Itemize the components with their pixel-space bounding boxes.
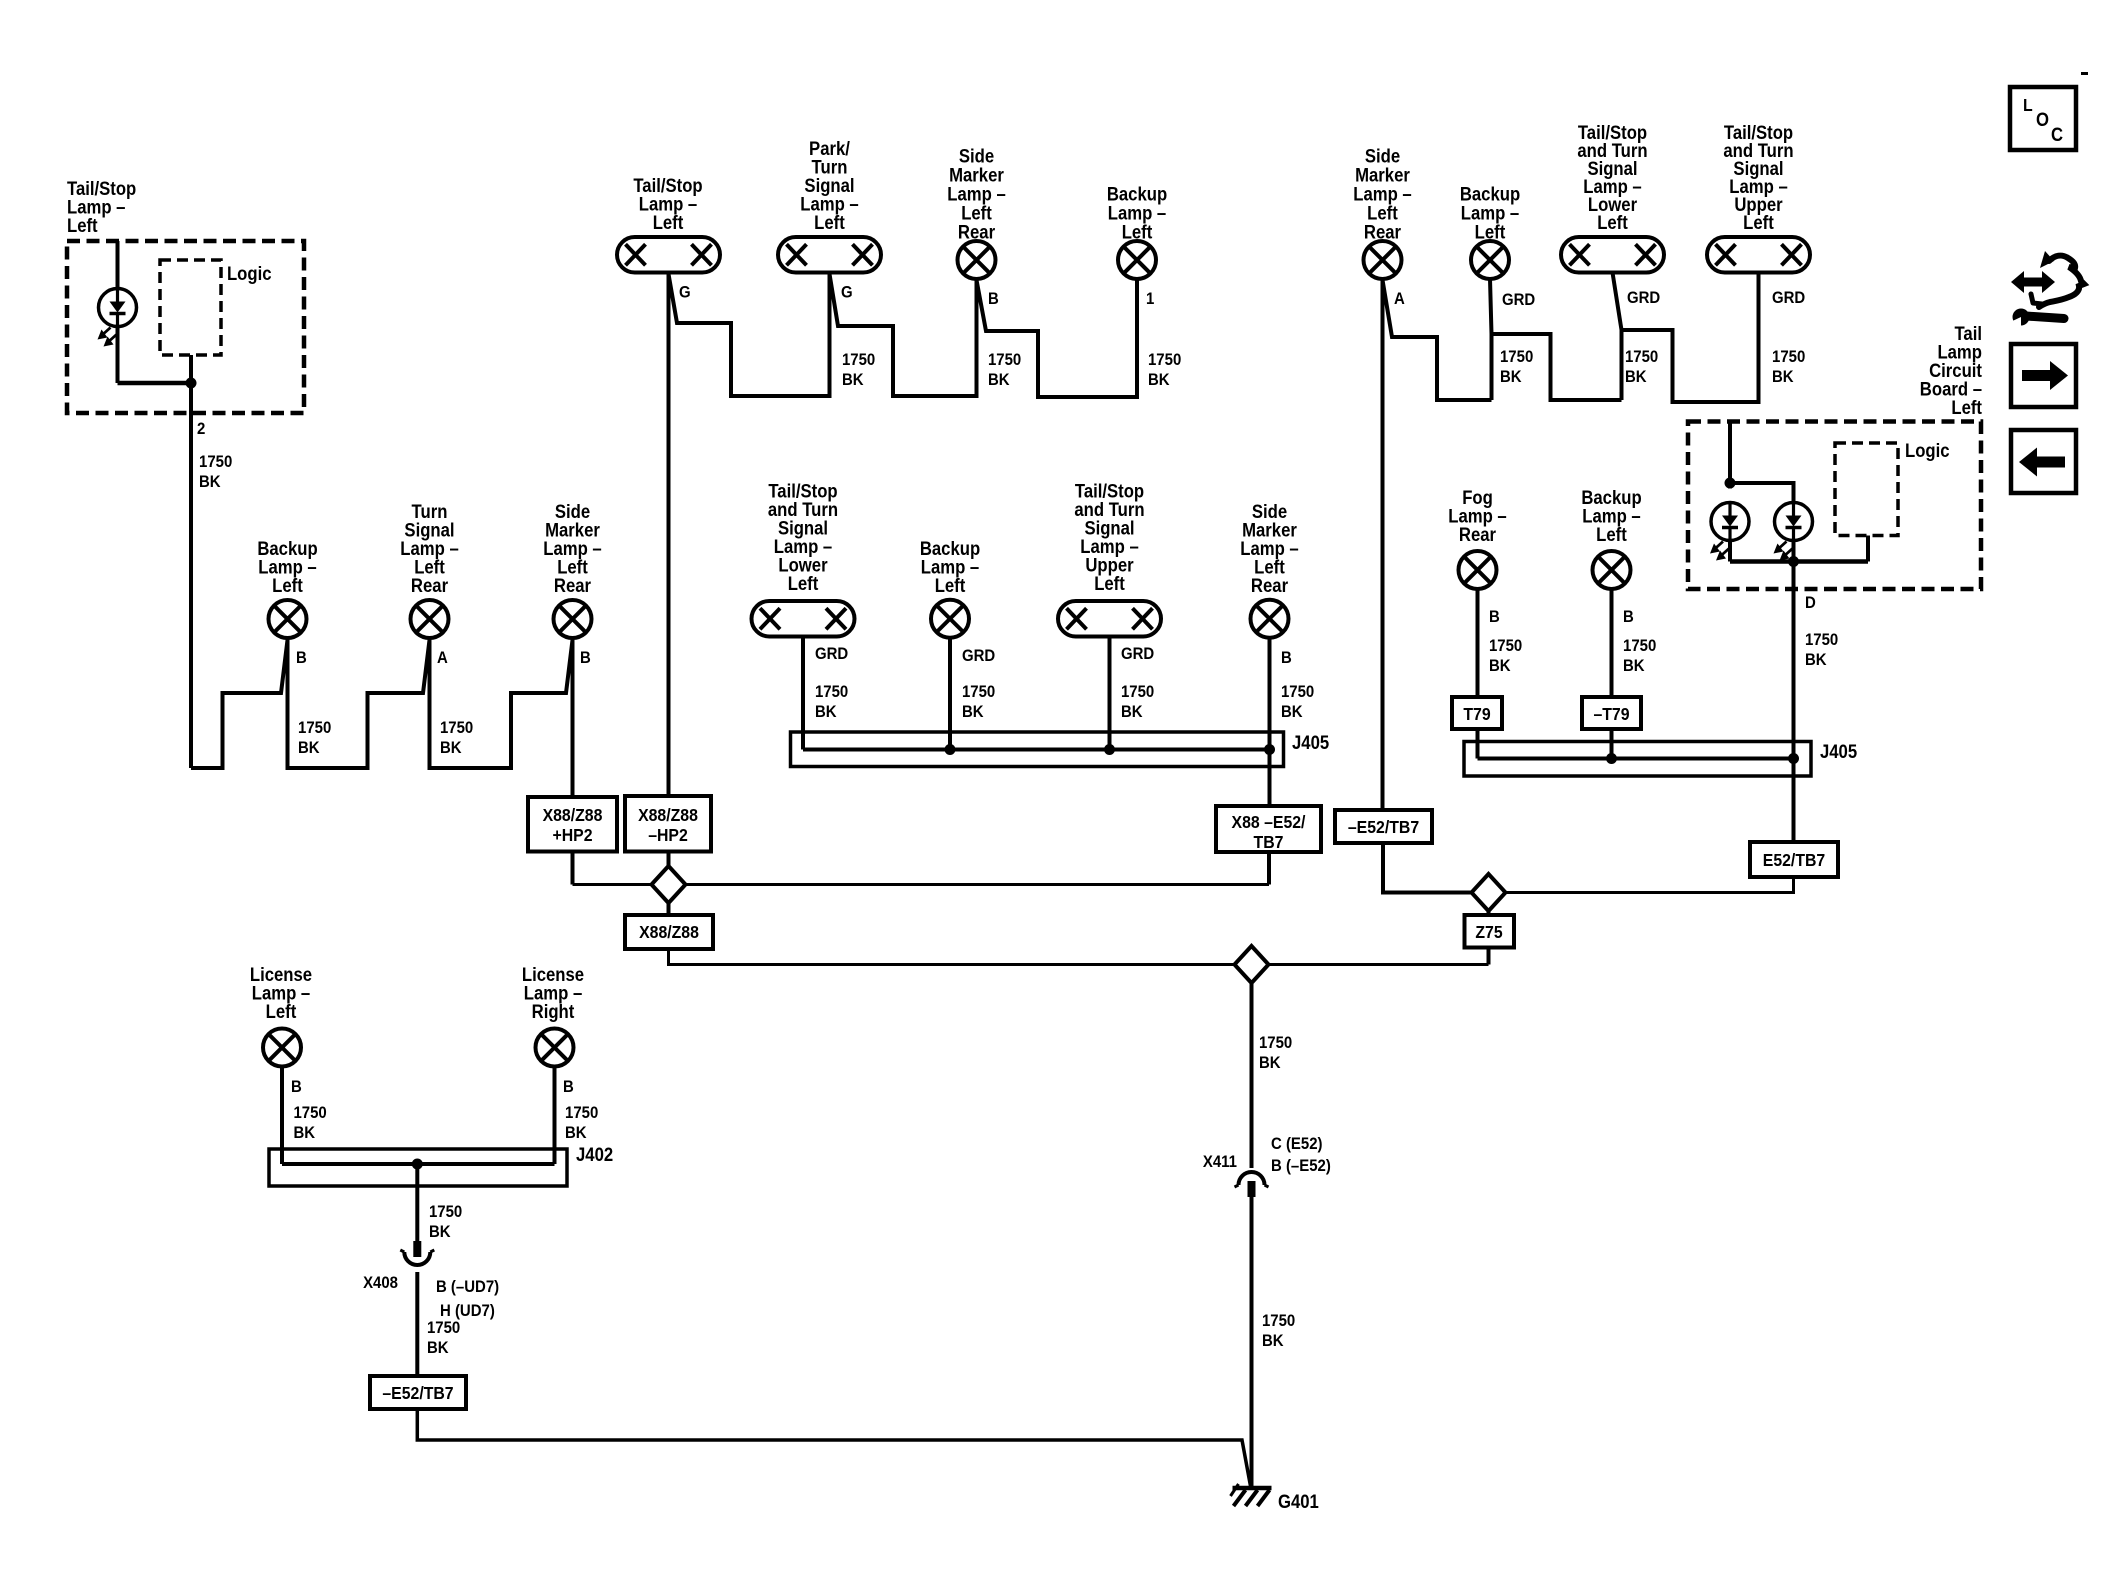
LED D1 (tail/stop lamp) [99,289,137,327]
wire: -T79 to J405 [1610,729,1614,759]
svg-text:X88/Z88: X88/Z88 [543,805,603,825]
svg-text:J405: J405 [1820,741,1857,762]
lamp: Tail/Stop and Turn Signal Lamp - Upper Left (stadium) [1058,601,1161,637]
svg-text:D: D [1805,594,1816,612]
svg-text:Logic: Logic [1905,440,1950,461]
dashed Logic box (inner) [160,260,221,355]
svg-text:BK: BK [1259,1054,1281,1072]
wire: -E52/TB7 down to splice [1383,843,1472,893]
svg-text:–E52/TB7: –E52/TB7 [382,1383,453,1403]
connector E52/TB7 [1750,842,1838,877]
svg-text:X88 –E52/: X88 –E52/ [1232,812,1306,832]
svg-text:X408: X408 [363,1274,398,1292]
svg-text:GRD: GRD [1627,289,1660,307]
svg-text:Rear: Rear [1459,524,1496,545]
icon: arrow right box [2011,344,2076,407]
wire: D pin down through J405 right [1792,562,1796,843]
dashed housing box (Tail/Stop Lamp - Left) [67,241,304,413]
svg-text:B: B [580,649,591,667]
svg-text:G: G [841,284,853,302]
wire: J405 internal bus [803,748,1269,752]
lamp: Side Marker Lamp - Left Rear (bulb) [958,241,996,279]
lamp: License Lamp - Right (bulb) [536,1029,574,1067]
svg-text:Right: Right [532,1001,575,1022]
svg-text:BK: BK [1625,368,1647,386]
svg-text:B: B [1281,649,1292,667]
svg-text:Left: Left [1597,212,1628,233]
svg-text:–E52/TB7: –E52/TB7 [1348,817,1419,837]
wire: chain Backup GRD to Lower Left GRD [1492,334,1622,400]
svg-text:1750: 1750 [1805,631,1838,649]
wire: chain Backup B to Turn Signal A [288,638,430,768]
svg-text:BK: BK [298,739,320,757]
wire: LED cathode to node, node to Logic box [116,327,120,384]
svg-text:BK: BK [1281,703,1303,721]
svg-text:BK: BK [1772,368,1794,386]
svg-text:1750: 1750 [1489,637,1522,655]
wire: board feed stub [1728,422,1732,489]
svg-text:Left: Left [814,212,845,233]
svg-text:1750: 1750 [1262,1312,1295,1330]
svg-text:G: G [679,284,691,302]
svg-text:1750: 1750 [429,1203,462,1221]
svg-text:GRD: GRD [1502,291,1535,309]
svg-text:1750: 1750 [1500,348,1533,366]
svg-text:BK: BK [199,473,221,491]
svg-text:BK: BK [815,703,837,721]
svg-text:BK: BK [1623,657,1645,675]
wire: J402 down to X408 [415,1164,419,1247]
svg-text:1750: 1750 [298,719,331,737]
svg-text:1750: 1750 [1281,683,1314,701]
connector X88/Z88 +HP2 [528,797,617,852]
connector T79 [1452,697,1502,729]
svg-text:Left: Left [1094,573,1125,594]
svg-text:BK: BK [1500,368,1522,386]
wire: -E52/TB7 to G401 [417,1409,1250,1486]
svg-text:1750: 1750 [1259,1034,1292,1052]
svg-text:B (–UD7): B (–UD7) [436,1278,499,1296]
lamp: Park/Turn Signal Lamp - Left (stadium) [778,237,881,272]
splice diamond (X88/Z88) [652,866,686,903]
LED D2 (circuit board) [1711,503,1749,541]
svg-text:L: L [2023,95,2033,115]
svg-text:BK: BK [429,1223,451,1241]
lamp: Side Marker Lamp - Left Rear row2 (bulb) [554,600,592,638]
svg-text:1750: 1750 [962,683,995,701]
svg-text:–T79: –T79 [1593,704,1629,724]
connector X88/Z88 -HP2 [625,796,711,852]
lamp: License Lamp - Left (bulb) [263,1029,301,1067]
svg-text:Rear: Rear [411,575,448,596]
svg-text:1750: 1750 [440,719,473,737]
svg-text:BK: BK [842,371,864,389]
connector -T79 [1582,697,1641,729]
svg-text:1750: 1750 [565,1104,598,1122]
icon: double arrow with wrench (service) [2011,271,2055,293]
wire: logic box to common [1866,536,1870,562]
lamp: Turn Signal Lamp - Left Rear (bulb) [411,600,449,638]
svg-text:B (–E52): B (–E52) [1271,1157,1331,1175]
wire: X411 to G401 [1250,1197,1254,1488]
svg-text:A: A [1394,290,1405,308]
svg-text:1750: 1750 [1625,348,1658,366]
svg-text:B: B [988,290,999,308]
svg-text:Rear: Rear [1251,575,1288,596]
svg-text:1750: 1750 [1148,351,1181,369]
svg-text:B: B [291,1078,302,1096]
wire: +HP2 to splice horizontal [571,852,575,885]
wire: Tail/Stop G long drop to X88/Z88 -HP2 [667,273,671,797]
svg-text:1750: 1750 [988,351,1021,369]
svg-text:BK: BK [427,1339,449,1357]
wire: ground chain Side Marker B to Backup 1 [977,279,1138,397]
svg-text:C: C [2051,124,2063,145]
dashed housing: Tail Lamp Circuit Board - Left [1688,422,1981,590]
junction node LED feed [1725,478,1736,489]
wire: chain A to Backup GRD [1383,280,1492,400]
wire: J402 internal bus [282,1162,555,1166]
svg-text:Logic: Logic [227,263,272,284]
wire: splice horizontal X88/Z88 net [573,883,1270,886]
svg-text:1750: 1750 [1121,683,1154,701]
svg-text:X88/Z88: X88/Z88 [639,922,699,942]
wire: GRD to J405 [948,638,952,750]
svg-text:1750: 1750 [427,1319,460,1337]
wire: License left B to J402 [280,1067,284,1165]
svg-text:BK: BK [1262,1332,1284,1350]
svg-text:B: B [563,1078,574,1096]
svg-text:C (E52): C (E52) [1271,1135,1323,1153]
svg-text:1750: 1750 [815,683,848,701]
splice diamond Z75 [1472,874,1506,911]
wire: License right B to J402 [553,1067,557,1165]
svg-text:2: 2 [197,420,205,438]
lamp: Tail/Stop and Turn Signal Lamp - Lower Left (stadium) [752,601,855,637]
junction dot [1788,556,1799,567]
svg-text:GRD: GRD [815,645,848,663]
svg-text:+HP2: +HP2 [552,825,592,845]
svg-text:BK: BK [440,739,462,757]
svg-text:E52/TB7: E52/TB7 [1763,850,1825,870]
lamp: Tail/Stop Lamp - Left (dual filament stadium) [617,237,720,272]
svg-text:O: O [2036,109,2049,130]
svg-text:H (UD7): H (UD7) [440,1302,495,1320]
lamp: Fog Lamp - Rear (bulb) [1459,551,1497,589]
connector Z75 [1465,915,1515,948]
wire: Backup B to -T79 [1610,589,1614,697]
wire: pin 2 long vertical down [189,383,193,768]
wire: -HP2 down to splice diamond [667,852,671,868]
splice pack J402 [269,1149,567,1186]
svg-text:B: B [1623,608,1634,626]
svg-text:BK: BK [1489,657,1511,675]
connector -E52/TB7 (bottom) [370,1376,466,1409]
svg-text:Left: Left [1951,397,1982,418]
wire: pin2 run steps to Backup Lamp B [191,640,288,768]
wire: ground chain Park/Turn G to Side Marker B [830,274,977,396]
LED D3 (circuit board) [1775,503,1813,541]
wire: X88/Z88 down and right to Z75 [669,949,1489,965]
wire: feed to LED2 [1730,483,1794,503]
svg-text:GRD: GRD [962,647,995,665]
svg-text:1750: 1750 [199,453,232,471]
svg-text:–HP2: –HP2 [648,825,688,845]
connector X411 (inline) [1239,1172,1265,1185]
svg-text:1: 1 [1146,290,1154,308]
svg-text:Left: Left [1743,212,1774,233]
lamp: Tail/Stop and Turn Signal Lamp - Upper Left right (stadium) [1707,237,1810,272]
wire: E52/TB7 to Z75 splice horizontal [1489,877,1794,893]
svg-text:1750: 1750 [1623,637,1656,655]
svg-text:T79: T79 [1463,704,1490,724]
ground symbol G401 [1233,1486,1272,1491]
svg-text:Left: Left [788,573,819,594]
wire: ground chain Tail/Stop G to Park/Turn G [669,273,830,397]
svg-text:G401: G401 [1278,1491,1319,1512]
svg-text:BK: BK [1121,703,1143,721]
wire: GRD to J405 [801,637,805,750]
connector X88 -E52/TB7 [1216,806,1321,852]
wire: J405 right internal bus [1478,757,1795,761]
svg-text:1750: 1750 [293,1104,326,1122]
svg-text:Left: Left [266,1001,297,1022]
wire: Backup GRD drop [1490,279,1492,400]
wire: diamond down to X411 [1250,983,1254,1168]
lamp: Backup Lamp - Left row2 (bulb) [269,600,307,638]
svg-text:B: B [296,649,307,667]
wire: X88 -E52/TB7 down to X88/Z88 splice horizontal [1267,852,1271,885]
junction dots on J405 [945,744,956,755]
lamp: Tail/Stop and Turn Signal Lamp - Lower Left right (stadium) [1561,237,1664,272]
svg-text:GRD: GRD [1121,645,1154,663]
svg-text:Z75: Z75 [1475,922,1502,942]
junction dot J402 [412,1159,423,1170]
junction dots on J405 right [1606,753,1617,764]
wire: feed into LED [116,241,120,289]
svg-text:Left: Left [935,575,966,596]
lamp: Side Marker Lamp - Left Rear right (bulb) [1364,241,1402,279]
wire: X408 to -E52/TB7 [415,1272,419,1376]
connector X88/Z88 [625,915,713,949]
svg-text:Left: Left [653,212,684,233]
junction node (pin 2 net) [186,378,197,389]
icon: arrow left box [2011,430,2076,493]
svg-text:X88/Z88: X88/Z88 [638,805,698,825]
wire: T79 to J405 [1476,729,1480,759]
lamp: Backup Lamp - Left (bulb) [1118,241,1156,279]
wire: diamond to Z75 box [1487,911,1491,915]
svg-text:J402: J402 [576,1144,613,1165]
icon: LOC box [2010,87,2076,150]
svg-text:1750: 1750 [842,351,875,369]
dashed Logic box (circuit board) [1835,443,1898,536]
connector -E52/TB7 (right) [1335,810,1432,843]
svg-text:Left: Left [67,215,98,236]
wire: diamond to X88/Z88 box [667,903,671,915]
svg-text:BK: BK [988,371,1010,389]
svg-text:BK: BK [293,1124,315,1142]
wire: GRD to J405 [1108,637,1112,750]
svg-text:B: B [1489,608,1500,626]
lamp: Backup Lamp - Left right-middle (bulb) [1593,551,1631,589]
wire: chain Turn Signal A to Side Marker B [430,638,573,768]
svg-text:BK: BK [962,703,984,721]
stray mark [2081,72,2088,75]
connector X408 (inline) [413,1241,421,1257]
svg-text:Left: Left [272,575,303,596]
wire: A long drop to -E52/TB7 [1381,279,1385,810]
lamp: Backup Lamp - Left middle (bulb) [931,600,969,638]
wire: Fog B to T79 [1476,589,1480,697]
splice pack J405 (right) [1464,742,1811,777]
svg-text:A: A [437,649,448,667]
svg-text:J405: J405 [1292,732,1329,753]
wire: chain Lower Left GRD to Upper Left GRD [1622,273,1759,403]
svg-text:1750: 1750 [1772,348,1805,366]
svg-text:BK: BK [1805,651,1827,669]
svg-text:Rear: Rear [554,575,591,596]
wire: Side Marker B down to X88/Z88 +HP2 [571,638,575,797]
lamp: Backup Lamp - Left right (bulb) [1471,241,1509,279]
wire: Lower Left GRD drop [1613,273,1622,401]
svg-text:BK: BK [565,1124,587,1142]
wire: common cathode bus [1730,559,1868,564]
lamp: Side Marker Lamp - Left Rear middle (bulb) [1251,600,1289,638]
wire: LED cathodes to common [1728,541,1732,562]
splice diamond (G401 net) [1235,946,1269,983]
svg-text:X411: X411 [1203,1153,1237,1171]
splice pack J405 (left) [791,732,1284,767]
svg-text:TB7: TB7 [1254,832,1284,852]
svg-text:GRD: GRD [1772,289,1805,307]
wire: B through J405 to X88 -E52/TB7 [1268,638,1272,807]
svg-text:Left: Left [1596,524,1627,545]
wrench [2013,309,2030,326]
svg-text:BK: BK [1148,371,1170,389]
